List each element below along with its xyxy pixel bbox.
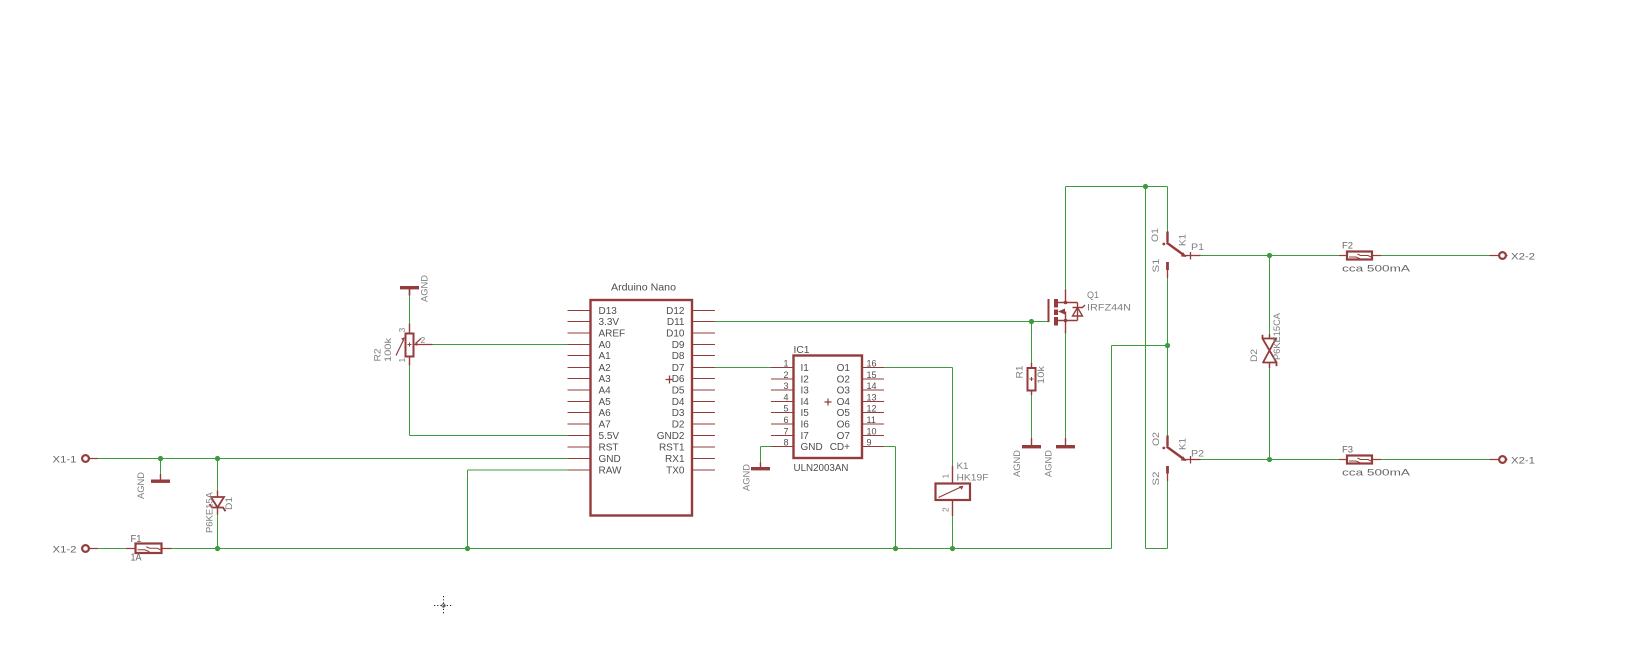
pinhead X1-1 [82, 455, 89, 462]
wire D2 bottom to P2 net [1269, 368, 1271, 460]
wire bottom net F1 to right [172, 548, 1112, 550]
wire F2 to X2-2 [1381, 255, 1490, 257]
fuse body F1 [136, 544, 162, 554]
svg-text:GND: GND [801, 442, 823, 453]
junction P2/D2 [1267, 457, 1272, 462]
svg-text:A7: A7 [599, 420, 612, 431]
pin 5.5V (left) [568, 435, 591, 437]
svg-text:RST1: RST1 [659, 443, 685, 454]
svg-text:O7: O7 [837, 431, 851, 442]
pin 16 (O1) [862, 367, 884, 369]
svg-text:2: 2 [421, 335, 426, 345]
wire D1 cathode to bottom net [217, 515, 219, 549]
svg-text:X2-2: X2-2 [1511, 252, 1535, 263]
wire R2 pin3 to AGND [409, 296, 411, 324]
pin RAW (left) [568, 469, 591, 471]
pin AREF (left) [568, 332, 591, 334]
wire drain net bottom jog [1146, 548, 1168, 550]
svg-text:3.3V: 3.3V [599, 317, 620, 328]
svg-text:Arduino Nano: Arduino Nano [611, 282, 676, 294]
pin 1 (I1) [771, 367, 794, 369]
pin 10 (O7) [862, 435, 884, 437]
svg-text:P6KE15CA: P6KE15CA [1272, 312, 1283, 360]
wire P1 to F2 [1201, 255, 1340, 257]
svg-text:1A: 1A [131, 553, 142, 564]
svg-text:RAW: RAW [599, 466, 623, 477]
svg-text:D4: D4 [672, 397, 685, 408]
relay contact S1 terminal [1151, 259, 1168, 279]
pin D11 (right) [692, 321, 715, 323]
wire drain net down [1145, 187, 1147, 549]
svg-text:O6: O6 [837, 420, 851, 431]
svg-text:12: 12 [867, 404, 877, 414]
pin 6 (I6) [771, 423, 794, 425]
wire R1 to AGND [1031, 395, 1033, 445]
pin A1 (left) [568, 355, 591, 357]
pin D8 (right) [692, 355, 715, 357]
pin D2 (right) [692, 423, 715, 425]
svg-text:P2: P2 [1191, 449, 1204, 460]
connector pin X1-1 [53, 455, 99, 466]
svg-text:S1: S1 [1151, 259, 1162, 273]
svg-text:AGND: AGND [136, 472, 147, 499]
wire to Arduino 5.5V [410, 435, 568, 437]
junction S1-O2 branch [1165, 343, 1170, 348]
svg-text:16: 16 [867, 359, 877, 369]
connector pin X1-2 [53, 545, 99, 556]
svg-text:5: 5 [783, 404, 788, 414]
svg-text:GND2: GND2 [657, 431, 685, 442]
wire to D1 anode [217, 459, 219, 491]
svg-text:D5: D5 [672, 386, 685, 397]
pin 2 (I2) [771, 378, 794, 380]
fuse body F2 [1347, 252, 1372, 260]
svg-text:100k: 100k [383, 338, 394, 362]
svg-text:D8: D8 [672, 351, 685, 362]
svg-text:X1-1: X1-1 [53, 455, 77, 466]
svg-text:9: 9 [867, 438, 872, 448]
svg-text:Q1: Q1 [1087, 290, 1099, 301]
svg-text:I6: I6 [801, 420, 810, 431]
wire top net drain to O1 [1066, 186, 1168, 188]
svg-text:IC1: IC1 [794, 345, 810, 356]
svg-text:R2: R2 [372, 349, 383, 362]
wire Arduino D11 to Q1 gate [715, 321, 1048, 323]
fuse body F3 [1347, 456, 1372, 464]
svg-text:I5: I5 [801, 408, 810, 419]
wire drop to AGND symbol [160, 459, 162, 475]
wire IC1 O1 pin16 [884, 367, 953, 369]
wire R2 wiper to A0 [433, 344, 568, 346]
svg-text:3: 3 [397, 328, 407, 333]
svg-text:3: 3 [783, 381, 788, 391]
junction top net [1143, 184, 1148, 189]
wire net AGND: X1-1 to Arduino GND [98, 458, 568, 460]
wire down to O1 contact [1167, 187, 1169, 232]
svg-text:I3: I3 [801, 386, 810, 397]
svg-text:R1: R1 [1014, 366, 1025, 379]
wire up to S2 [1167, 481, 1169, 549]
pin A2 (left) [568, 367, 591, 369]
pin A6 (left) [568, 412, 591, 414]
svg-text:GND: GND [599, 454, 621, 465]
svg-text:I2: I2 [801, 375, 810, 386]
svg-text:A2: A2 [599, 363, 612, 374]
svg-text:O4: O4 [837, 397, 851, 408]
svg-text:10: 10 [867, 427, 877, 437]
pin D7 (right) [692, 367, 715, 369]
svg-text:2: 2 [783, 370, 788, 380]
svg-text:cca 500mA: cca 500mA [1342, 264, 1411, 275]
svg-text:D3: D3 [672, 408, 685, 419]
pinhead X2-2 [1499, 252, 1506, 259]
pin 13 (O4) [862, 401, 884, 403]
svg-text:RX1: RX1 [665, 454, 685, 465]
wire gate node down to R1 [1031, 322, 1033, 364]
svg-text:cca 500mA: cca 500mA [1342, 468, 1411, 479]
svg-text:O1: O1 [837, 363, 851, 374]
relay coil K1 HK19F [936, 461, 989, 516]
ic U IC1 ULN2003AN [771, 345, 884, 474]
junction pin9/bottom net [893, 546, 898, 551]
svg-text:A4: A4 [599, 386, 612, 397]
svg-text:O5: O5 [837, 408, 851, 419]
pin A5 (left) [568, 401, 591, 403]
svg-text:O2: O2 [1151, 432, 1162, 446]
pin 14 (O3) [862, 389, 884, 391]
svg-text:10k: 10k [1036, 366, 1047, 384]
diode D1 P6KE15A [204, 491, 235, 534]
origin crosshair marker [434, 596, 453, 615]
svg-text:TX0: TX0 [666, 466, 685, 477]
wire F3 to X2-1 [1381, 459, 1490, 461]
svg-text:F1: F1 [131, 534, 142, 545]
wire K1 coil pin2 to bottom net [952, 516, 954, 549]
svg-text:A1: A1 [599, 351, 612, 362]
svg-text:RST: RST [599, 443, 619, 454]
fuse F3 cca 500mA [1339, 445, 1411, 479]
svg-text:I1: I1 [801, 363, 810, 374]
transistor Q1 IRFZ44N n-mosfet [1048, 290, 1132, 334]
pin 5 (I5) [771, 412, 794, 414]
wire P2 to F3 [1201, 459, 1340, 461]
pin D5 (right) [692, 389, 715, 391]
wire IC1 GND pin8 [761, 446, 772, 448]
svg-text:D11: D11 [667, 317, 685, 328]
svg-text:D2: D2 [672, 420, 685, 431]
svg-text:CD+: CD+ [830, 442, 850, 453]
relay contact S2 terminal [1151, 466, 1168, 486]
svg-text:A3: A3 [599, 374, 612, 385]
svg-text:ULN2003AN: ULN2003AN [794, 463, 849, 474]
pin 3.3V (left) [568, 321, 591, 323]
relay contact K1 P1 (O1/S1) [1150, 228, 1204, 260]
wire Arduino D7 to IC1 I1 [715, 367, 771, 369]
pin D4 (right) [692, 401, 715, 403]
svg-text:HK19F: HK19F [957, 473, 989, 484]
svg-text:AGND: AGND [1012, 450, 1023, 477]
svg-text:15: 15 [867, 370, 877, 380]
svg-text:D10: D10 [666, 329, 685, 340]
pinhead X2-1 [1499, 456, 1506, 463]
fuse F2 cca 500mA [1339, 241, 1411, 275]
svg-text:7: 7 [783, 427, 788, 437]
svg-text:AGND: AGND [419, 275, 430, 302]
svg-text:P1: P1 [1191, 242, 1204, 253]
svg-text:A0: A0 [599, 340, 612, 351]
junction X1-1/D1 [215, 456, 220, 461]
potentiometer R2 100k [372, 324, 432, 366]
pin D3 (right) [692, 412, 715, 414]
pin A0 (left) [568, 344, 591, 346]
svg-text:D1: D1 [224, 497, 235, 510]
pin RX1 (right) [692, 458, 715, 460]
svg-text:A5: A5 [599, 397, 612, 408]
pin D6 (right) [692, 378, 715, 380]
ground AGND at IC1 GND [760, 463, 762, 468]
svg-text:S2: S2 [1151, 472, 1162, 486]
svg-text:8: 8 [783, 438, 788, 448]
svg-text:X1-2: X1-2 [53, 545, 77, 556]
origin cross of Arduino part (over D6) [666, 376, 674, 384]
ground AGND near X1-1 [160, 474, 162, 480]
pin GND2 (right) [692, 435, 715, 437]
wire RAW down to bottom net [467, 470, 469, 549]
wire to D2 top [1269, 256, 1271, 335]
resistor R1 10k [1014, 363, 1046, 395]
svg-text:11: 11 [867, 415, 876, 425]
wire S1 to O2 [1167, 278, 1169, 436]
pin 12 (O5) [862, 412, 884, 414]
svg-text:F2: F2 [1342, 241, 1353, 252]
pin TX0 (right) [692, 469, 715, 471]
svg-text:AREF: AREF [599, 329, 626, 340]
svg-text:5.5V: 5.5V [599, 431, 620, 442]
svg-text:D13: D13 [599, 306, 618, 317]
svg-text:X2-1: X2-1 [1511, 456, 1535, 467]
pin 11 (O6) [862, 423, 884, 425]
fuse F1 1A [126, 534, 172, 564]
svg-text:F3: F3 [1342, 445, 1353, 456]
connector pin X2-2 [1490, 252, 1536, 263]
svg-text:I4: I4 [801, 397, 810, 408]
svg-text:O3: O3 [837, 386, 851, 397]
pin RST (left) [568, 446, 591, 448]
junction P1/D2 [1267, 253, 1272, 258]
svg-text:4: 4 [783, 393, 788, 403]
svg-text:D6: D6 [672, 374, 685, 385]
pin A3 (left) [568, 378, 591, 380]
junction coil/bottom net [950, 546, 955, 551]
svg-text:D7: D7 [672, 363, 685, 374]
pin 7 (I7) [771, 435, 794, 437]
svg-text:O2: O2 [837, 375, 851, 386]
svg-text:P6KE15A: P6KE15A [204, 491, 215, 533]
svg-text:1: 1 [940, 474, 950, 479]
wire Q1 source to AGND [1065, 334, 1067, 446]
svg-text:AGND: AGND [741, 464, 752, 491]
ground AGND above R2 [409, 286, 411, 296]
pin RST1 (right) [692, 446, 715, 448]
ground AGND at R1 [1031, 438, 1033, 445]
junction RAW/bottom net [465, 546, 470, 551]
svg-text:2: 2 [940, 507, 950, 512]
ground AGND at Q1 source [1065, 438, 1067, 445]
wire pin8 down to AGND [760, 447, 762, 463]
pin 15 (O2) [862, 378, 884, 380]
wire IC1 CD+ pin9 [884, 446, 896, 448]
pin 3 (I3) [771, 389, 794, 391]
svg-text:14: 14 [867, 381, 877, 391]
svg-text:IRFZ44N: IRFZ44N [1087, 303, 1131, 314]
pin A4 (left) [568, 389, 591, 391]
pin 4 (I4) [771, 401, 794, 403]
svg-text:K1: K1 [1177, 438, 1188, 450]
pin D10 (right) [692, 332, 715, 334]
pin D13 (left) [568, 310, 591, 312]
svg-text:6: 6 [783, 415, 788, 425]
svg-text:K1: K1 [957, 461, 969, 472]
wire RAW horizontal [468, 469, 568, 471]
svg-text:AGND: AGND [1043, 450, 1054, 477]
wire pin16 down to K1 coil pin1 [952, 368, 954, 467]
wire X1-2 to F1 [98, 548, 126, 550]
svg-text:D9: D9 [672, 340, 685, 351]
wire pin9 down to bottom net [895, 447, 897, 549]
pin GND (left) [568, 458, 591, 460]
pin D9 (right) [692, 344, 715, 346]
pin 9 (CD+) [862, 446, 884, 448]
wire R2 pin1 down [409, 366, 411, 436]
origin cross of IC1 [825, 399, 832, 406]
svg-text:D12: D12 [666, 306, 685, 317]
wire Q1 drain up [1065, 187, 1067, 290]
svg-text:I7: I7 [801, 431, 810, 442]
junction X1-1/AGND [158, 456, 163, 461]
pinhead X1-2 [82, 545, 89, 552]
wire bottom net branch to S1/O2 node [1112, 345, 1168, 347]
svg-text:13: 13 [867, 393, 877, 403]
wire vertical branch of bottom net [1111, 346, 1113, 549]
junction D1/bottom net [215, 546, 220, 551]
pin A7 (left) [568, 423, 591, 425]
pin D12 (right) [692, 310, 715, 312]
junction gate/R1 [1029, 319, 1034, 324]
svg-text:O1: O1 [1150, 228, 1161, 242]
svg-text:K1: K1 [1177, 234, 1188, 246]
svg-text:A6: A6 [599, 408, 612, 419]
svg-text:1: 1 [397, 358, 407, 363]
relay contact K1 P2 (O2/S2) [1151, 432, 1204, 464]
connector pin X2-1 [1490, 456, 1536, 467]
svg-text:D2: D2 [1249, 349, 1260, 362]
module U ARDUINO NANO [568, 282, 716, 516]
svg-text:1: 1 [783, 359, 788, 369]
diode D2 P6KE15CA [1249, 312, 1283, 368]
pin 8 (GND) [771, 446, 794, 448]
